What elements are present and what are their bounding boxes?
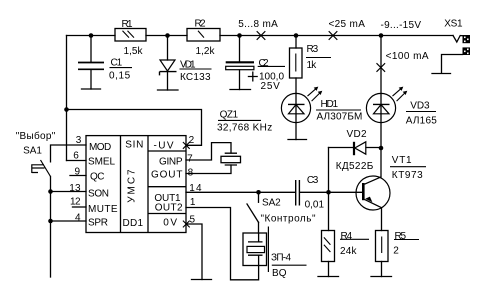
resistor R3	[290, 48, 303, 78]
quartz QZ1	[221, 153, 241, 165]
svg-text:КД522Б: КД522Б	[336, 161, 374, 172]
wire left rail	[66, 36, 68, 161]
wire pin6 SMEL	[67, 160, 87, 162]
wire SA1 lower chain	[50, 177, 52, 278]
wire pin9 QC stub	[70, 175, 86, 177]
wire pin12 MUTE stub	[73, 206, 87, 208]
wire VD2 left lead	[329, 147, 354, 149]
node C2 tap	[237, 33, 242, 38]
wire pin3 MOD to SA1	[51, 145, 87, 162]
svg-text:BQ: BQ	[272, 268, 287, 279]
resistor R1	[115, 29, 146, 42]
svg-text:2: 2	[393, 246, 399, 257]
svg-text:ЗП-4: ЗП-4	[271, 252, 291, 263]
wire pin13 SON	[51, 191, 87, 193]
wire pin8 GOUT to QZ1 bottom	[186, 165, 231, 174]
svg-text:"Выбор": "Выбор"	[16, 130, 56, 142]
wire VT1 emitter to R5	[381, 208, 383, 231]
svg-text:32,768 KHz: 32,768 KHz	[217, 123, 272, 134]
wire VD2 right lead	[366, 147, 381, 149]
svg-text:XS1: XS1	[444, 19, 463, 30]
svg-text:SPR: SPR	[88, 217, 108, 228]
svg-text:SON: SON	[88, 188, 109, 199]
measuring cross on rail <25mA	[329, 31, 338, 40]
svg-text:R3: R3	[307, 44, 319, 55]
wire VD1 bottom lead	[167, 72, 169, 91]
svg-text:R2: R2	[195, 19, 206, 30]
svg-text:1,2k: 1,2k	[196, 46, 216, 57]
fraction bar VD3	[406, 111, 436, 113]
wire C1 bottom lead	[90, 70, 92, 90]
wire pin14 OUT1 to C3	[186, 191, 295, 193]
wire top supply rail	[67, 35, 454, 37]
wire pin7 GINP to QZ1 top	[186, 143, 231, 160]
ground C1	[82, 88, 101, 90]
node VD2-VT1	[379, 146, 384, 151]
svg-text:HD1: HD1	[321, 99, 339, 110]
fraction bar VD1	[180, 68, 212, 70]
resistor R5	[376, 231, 389, 262]
measuring cross pin2	[183, 142, 190, 149]
wire R4 bottom lead	[328, 262, 330, 277]
svg-text:0V: 0V	[163, 218, 177, 229]
svg-text:MOD: MOD	[89, 142, 111, 153]
ground VD1	[158, 89, 179, 91]
fraction bar HD1	[316, 109, 361, 111]
node VD1 tap	[165, 33, 170, 38]
arrowheads VD3	[399, 87, 408, 95]
node VD3 tap	[379, 33, 384, 38]
arrow VT1 emitter	[365, 197, 372, 203]
svg-text:C2: C2	[259, 58, 269, 69]
svg-text:R4: R4	[341, 231, 353, 242]
svg-text:SA1: SA1	[23, 146, 42, 157]
wire XS1 pin 2 to ground	[442, 55, 463, 74]
LED VD3	[366, 88, 405, 123]
svg-text:4: 4	[75, 212, 81, 223]
svg-text:КТ973: КТ973	[392, 170, 423, 181]
node OUT1-SA2	[256, 190, 261, 195]
svg-text:13: 13	[69, 183, 81, 194]
measuring cross pin5	[183, 221, 190, 228]
fraction bar R5	[394, 239, 419, 241]
wire VD3 through and to VD2 node	[380, 94, 382, 149]
wire R5 bottom lead	[381, 262, 383, 277]
svg-text:14: 14	[189, 183, 202, 194]
svg-text:0,01: 0,01	[305, 200, 325, 211]
svg-text:-UV: -UV	[154, 140, 174, 151]
diode VD2	[354, 142, 366, 155]
svg-text:GOUT: GOUT	[151, 169, 183, 180]
capacitor C2 electrolytic	[226, 62, 258, 81]
resistor R4	[322, 231, 335, 262]
svg-text:C1: C1	[111, 57, 123, 68]
measuring cross <100mA	[377, 63, 386, 72]
svg-text:SIN: SIN	[125, 140, 143, 151]
wire SA2 top contact	[258, 192, 260, 202]
svg-text:24k: 24k	[340, 246, 358, 257]
svg-text:2: 2	[189, 135, 195, 146]
fraction bar VT1	[390, 166, 426, 168]
svg-text:7: 7	[187, 153, 193, 164]
wire C3 to VT1 base	[300, 191, 362, 193]
svg-text:GINP: GINP	[159, 157, 183, 168]
wire VD1 top lead	[167, 36, 169, 61]
node SON	[48, 189, 53, 194]
svg-text:12: 12	[70, 197, 81, 208]
svg-text:OUT2: OUT2	[155, 203, 183, 214]
buzzer BQ ZP-4	[243, 227, 268, 273]
svg-text:АЛ307БМ: АЛ307БМ	[317, 111, 363, 122]
svg-text:АЛ165: АЛ165	[406, 115, 437, 126]
fraction bar C2	[258, 65, 285, 67]
svg-text:1: 1	[190, 197, 196, 208]
svg-text:MUTE: MUTE	[88, 204, 118, 215]
wire VD2 node to VT1 collector	[380, 148, 382, 177]
wire HD1 through and bottom lead	[295, 94, 297, 140]
svg-text:25V: 25V	[261, 81, 281, 92]
node -UV branch	[64, 107, 69, 112]
arrowheads HD1	[314, 87, 323, 95]
node R3 tap	[294, 33, 299, 38]
svg-text:SA2: SA2	[262, 198, 281, 209]
svg-text:DD1: DD1	[123, 218, 144, 229]
svg-text:8: 8	[188, 167, 194, 178]
ground 0V	[192, 279, 212, 281]
fraction bar R4	[340, 238, 369, 240]
wire VD3 top lead	[380, 36, 382, 94]
node C3-R4	[326, 190, 331, 195]
ground HD1	[288, 139, 307, 141]
svg-text:VT1: VT1	[392, 155, 412, 166]
svg-text:"Контроль": "Контроль"	[261, 213, 316, 224]
ground R5	[371, 276, 392, 278]
fraction bar BQ	[272, 264, 307, 266]
wire R3 to HD1	[295, 78, 297, 94]
svg-text:3: 3	[76, 135, 82, 146]
svg-text:-9...-15V: -9...-15V	[381, 20, 422, 31]
svg-text:6: 6	[73, 150, 79, 161]
svg-text:5...8 mA: 5...8 mA	[238, 19, 278, 30]
svg-text:C3: C3	[307, 175, 319, 186]
IC DD1 box	[86, 136, 186, 233]
svg-text:1k: 1k	[307, 60, 318, 71]
wire R4 top lead	[328, 192, 330, 230]
fraction bar R3	[306, 57, 331, 59]
wire pin4 SPR	[51, 220, 87, 222]
node SPR	[48, 219, 53, 224]
switch SA1	[32, 160, 51, 177]
svg-text:SMEL: SMEL	[88, 156, 115, 167]
measuring cross on rail 5..8mA	[257, 31, 266, 40]
transistor VT1	[356, 176, 390, 210]
wire pin2 -UV branch	[67, 110, 202, 146]
svg-text:VD2: VD2	[347, 129, 367, 140]
capacitor C3	[296, 180, 300, 206]
svg-text:R1: R1	[122, 19, 133, 30]
svg-text:5: 5	[190, 214, 196, 225]
svg-text:9: 9	[74, 167, 80, 178]
svg-text:VD3: VD3	[410, 101, 430, 112]
svg-text:КС133: КС133	[180, 72, 211, 83]
svg-text:<25 mA: <25 mA	[329, 19, 366, 30]
capacitor C1	[78, 63, 104, 70]
svg-text:QC: QC	[90, 172, 105, 183]
connector XS1	[463, 35, 471, 55]
wire VD2 drop to C3 node	[328, 148, 330, 193]
svg-text:QZ1: QZ1	[220, 109, 239, 120]
svg-text:1,5k: 1,5k	[124, 46, 144, 57]
ground R4	[318, 276, 339, 278]
ground C2	[230, 89, 251, 91]
svg-text:R5: R5	[395, 231, 407, 242]
wire pin1 OUT2 to BQ	[186, 208, 259, 280]
wire C2 bottom lead	[239, 70, 241, 90]
wire C2 top lead	[239, 36, 241, 62]
resistor R2	[187, 29, 220, 42]
svg-text:0,15: 0,15	[109, 71, 131, 82]
wire SA2 to BQ top	[258, 222, 260, 233]
wire C1 top lead	[90, 36, 92, 63]
zener diode VD1	[160, 60, 177, 75]
wire pin5 0V to ground	[186, 224, 202, 280]
fraction bar C1	[110, 67, 133, 69]
wire XS1 V-notch	[453, 36, 463, 43]
node C1 tap	[89, 33, 94, 38]
switch arm SA2	[247, 204, 259, 222]
wire R3 top lead	[295, 36, 297, 49]
svg-text:<100 mA: <100 mA	[386, 51, 429, 62]
fraction bar QZ1	[218, 119, 261, 121]
ground XS1	[432, 73, 451, 75]
LED HD1	[281, 88, 320, 123]
